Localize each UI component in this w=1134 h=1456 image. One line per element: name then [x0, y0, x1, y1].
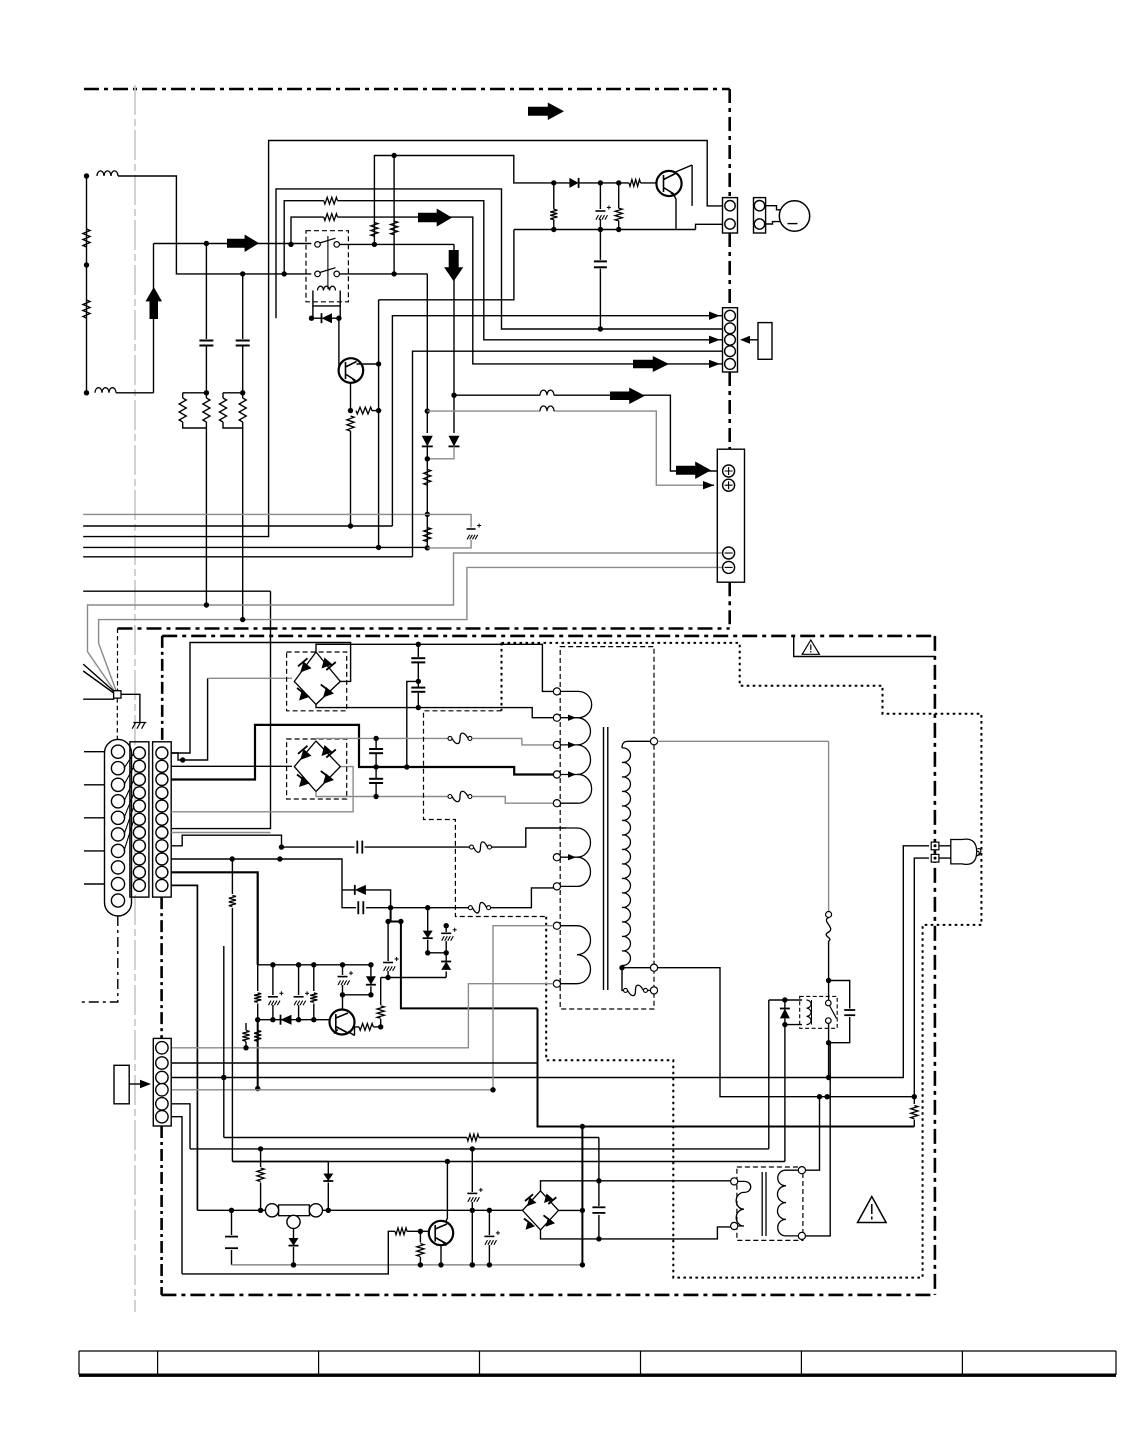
- capacitor C112: [231, 1210, 233, 1265]
- wire relay line to Q2 base: [339, 318, 343, 370]
- wire CN4 pin2: [172, 1062, 538, 1064]
- wire loop L2 to connector P2 pin3: [284, 201, 722, 340]
- wire CN4 pin6 down: [172, 1117, 182, 1274]
- thermal fuse F105: [826, 912, 832, 918]
- wire CN3 pin8 jog: [171, 835, 281, 847]
- capacitor C104: [375, 738, 377, 767]
- zener block: capacitor C109 (electrolytic): [342, 965, 344, 995]
- wire W1 riser (feeds line1): [374, 156, 553, 245]
- resistor R8: [239, 398, 246, 422]
- resistor R100: [911, 1106, 918, 1119]
- wire switch line 2 drop: [426, 274, 428, 433]
- flow arrow right into P2 pin5: [633, 356, 669, 372]
- T2 primary winding: [736, 1181, 751, 1226]
- bottom board border A (dash-dot): [118, 627, 730, 630]
- wire from L2 up to switch line 1: [116, 244, 311, 393]
- inductor L4: [540, 406, 554, 411]
- wire lamp stub 2: [765, 222, 781, 224]
- ground rail (gray): [232, 1264, 583, 1266]
- wire relay coil bottom: [785, 1025, 802, 1162]
- capacitor C115: [598, 1181, 600, 1239]
- wire relay coil top to rail: [769, 1000, 802, 1149]
- wire rail 1137 with resistor R107: [224, 946, 599, 1181]
- bottom board border B left segment 2 (dash-dot): [160, 897, 163, 1038]
- resistor R111: [419, 1231, 421, 1265]
- bottom board border B right (dash-dot): [934, 636, 937, 1295]
- connector P1 (2-pin): [723, 198, 738, 233]
- capacitor C101 (parallel pair lower): [342, 890, 391, 908]
- T1 secondary right tap mid: [650, 964, 657, 971]
- wire CN3 pin9 column through R108: [231, 859, 233, 1162]
- T1 secondary right tap bottom: [650, 987, 657, 994]
- transistor Q2: [339, 358, 364, 383]
- arrowhead into P2 pin5: [709, 360, 720, 368]
- wire CN3 pin1 to bridge D100 AC input: [171, 678, 207, 760]
- wire switch line 2 right run: [340, 273, 428, 275]
- T1 secondary top lead to tap: [622, 741, 651, 748]
- resistor R2: [83, 300, 90, 318]
- resistor network RN1 top bar: [183, 393, 207, 398]
- bridge rectifier D100 enclosure: [287, 652, 347, 711]
- wire zener block bottom link: [343, 994, 371, 996]
- AC plug body: [951, 839, 977, 864]
- wire T2 secondary top to plug rail: [806, 1097, 820, 1171]
- flow arrow right on switch line 1: [227, 235, 259, 253]
- wire C102/C103 midpoint branch: [407, 681, 419, 767]
- resistor R6: [203, 398, 210, 422]
- diode D104: [279, 1019, 282, 1021]
- resistor R110: [395, 1228, 407, 1235]
- component box left of CN4: [114, 1065, 129, 1104]
- wire mains line left to CN4 pin3: [172, 1077, 829, 1079]
- capacitor C106: [844, 1009, 855, 1011]
- resistor R109: [260, 1149, 262, 1210]
- wire plus line 2 with inductor L4 (gray): [427, 411, 703, 485]
- minus terminal 1: [723, 547, 735, 559]
- wire return line 1273.9: [182, 1231, 395, 1274]
- switch S1 dashed enclosure: [306, 231, 348, 302]
- wire feedback vertical lower: [378, 364, 380, 547]
- diode D109: [293, 1229, 295, 1265]
- wire loop L3 to connector P2 pin5: [291, 217, 722, 364]
- wire switch line 1 right run: [340, 243, 455, 245]
- wire Q2 emitter branch down to bus: [350, 431, 352, 526]
- connector CN3 (pin header): [153, 742, 172, 897]
- T1 secondary right tap top: [650, 738, 657, 745]
- wire CN4 pin5 down: [172, 1104, 190, 1149]
- wire rail 1210 (supply): [197, 1209, 522, 1211]
- wire Q101 emitter to ground rail: [440, 1245, 442, 1265]
- isolation barrier (heavy dotted): [502, 643, 982, 1278]
- transistor Q100: [330, 1010, 355, 1035]
- wire relay contact bottom to mains line: [828, 1023, 830, 1077]
- fuse F100: [470, 845, 474, 849]
- wire D100 plus output to tap1: [316, 644, 553, 691]
- wire CN3 pin3 heavy to tap4: [171, 725, 553, 780]
- AC plug terminal 2: [931, 854, 939, 862]
- diode D108: [323, 1174, 333, 1182]
- resistor R108: [229, 896, 236, 907]
- wire lamp stub 1: [765, 206, 781, 210]
- posistor PTC1: [265, 1204, 278, 1217]
- resistor R13 emitter to feedback vertical: [356, 407, 372, 414]
- bridge rectifier D101 diamond: [294, 741, 340, 792]
- T1 primary winding group3: [561, 926, 591, 984]
- bridge D100 diodes: [300, 662, 311, 673]
- flow arrow right (top): [528, 103, 564, 121]
- T2 secondary winding: [777, 1170, 798, 1236]
- resistor R7: [219, 398, 226, 422]
- wire Q1 emitter to rail: [674, 196, 676, 229]
- arrowhead into P2 pin3: [709, 336, 720, 344]
- wire Q2 emitter: [350, 383, 352, 411]
- fuse F102: [448, 736, 452, 740]
- footer revision table: [79, 1351, 1116, 1376]
- capacitor C105: [375, 767, 377, 797]
- bottom board border B left segment 3 (dash-dot): [160, 1126, 163, 1295]
- wire rail 1148.9: [190, 1148, 769, 1150]
- transistor Q101: [429, 1221, 453, 1245]
- wire Q100 collector top: [342, 995, 344, 1010]
- T1 internal fuse F104: [622, 968, 624, 991]
- AC plug prongs: [939, 846, 951, 858]
- capacitor C4: [599, 230, 601, 330]
- wire D101 output to fuse F102 and tap3 (gray): [316, 738, 448, 741]
- capacitor C108 (electrolytic): [298, 965, 300, 1020]
- wire rail 1161.5: [232, 1161, 785, 1163]
- wire plus line 1 with inductor L3: [454, 395, 717, 471]
- bridge D101 diodes: [300, 749, 311, 760]
- inductor L3: [540, 390, 554, 395]
- harness horizontal wire c: [83, 698, 114, 700]
- resistor R10 on W2: [391, 221, 398, 235]
- flow arrow right on plus line 1: [610, 388, 645, 405]
- relay RY1 coil: [807, 1000, 812, 1025]
- capacitor C103: [417, 681, 419, 707]
- switch S1-2 contacts: [315, 271, 321, 277]
- relay coil K1 (switch actuator): [318, 286, 336, 290]
- T1 core: [603, 727, 605, 990]
- transformer T1 dashed enclosure: [560, 647, 654, 1009]
- resistor R102: [313, 965, 315, 1020]
- fuse F103: [448, 795, 452, 799]
- wire from L1 to switch line 2: [118, 176, 311, 274]
- dash-dot exit from CN1 to page edge: [80, 916, 118, 1002]
- T2 primary taps: [731, 1178, 738, 1185]
- arrowhead into P2 pin1: [709, 312, 720, 320]
- wire T1 tap to thermal fuse (gray): [658, 741, 829, 911]
- arrowheads on group1 taps: [568, 715, 576, 721]
- dashed wire from node to connector CN1: [116, 698, 118, 739]
- wire Q1 collector to connector P1 pin1: [676, 165, 693, 206]
- resistor R101: [257, 965, 259, 1020]
- wire D106/C111 link: [428, 952, 447, 954]
- wire CN3 pin9 to snubber pair: [171, 859, 342, 890]
- wire feedback row 977: [381, 977, 447, 979]
- resistor R12 on loop L3: [324, 214, 338, 221]
- capacitor C5 (electrolytic): [467, 528, 476, 530]
- wire T2 secondary bottom riser: [806, 1043, 831, 1236]
- resistor network RN2 bottom bar: [223, 422, 243, 428]
- switch S1-1 contacts: [315, 242, 321, 248]
- wire CN4 pin1 to T1 group3 bottom tap (gray): [172, 984, 554, 1048]
- resistor R4: [424, 528, 431, 542]
- flow arrow right on loop L3: [418, 209, 452, 227]
- wire emitter rail: [514, 224, 723, 229]
- wire T1 tap mid to plug rail: [658, 968, 915, 1097]
- bridge rectifier D101 enclosure: [287, 739, 347, 799]
- node junction left chain: [84, 173, 89, 178]
- page fold divider (gray dash-dot vertical): [134, 85, 136, 1312]
- transformer T2 dashed enclosure: [737, 1167, 803, 1240]
- wire RN2 down to minus bus 2: [242, 428, 244, 620]
- wire to bridge D100 left (gray): [208, 677, 292, 679]
- chassis ground: [132, 723, 146, 729]
- capacitor C113 (electrolytic): [471, 1149, 473, 1265]
- wire W2 riser (feeds line2): [393, 156, 395, 274]
- resistor R9 on W1: [371, 223, 378, 237]
- wire thermal fuse to relay contact: [828, 941, 830, 1000]
- wire heater line with C and fuse: [282, 828, 567, 847]
- resistor R16: [550, 209, 557, 219]
- wire CN3 pin7 sense (gray): [171, 832, 270, 834]
- wire bus 526 to connector P2 pin1: [83, 316, 722, 526]
- T2 core: [761, 1172, 763, 1236]
- connector CN2 (pin header): [130, 742, 149, 897]
- wire CN3 pin11 down to low-voltage rail: [171, 885, 197, 1210]
- diode D3: [422, 436, 433, 447]
- flow arrow up: [146, 287, 163, 319]
- wire CN3 pin10 heavy to regulator rail: [171, 872, 258, 965]
- minus bus 2 (gray): [99, 567, 723, 690]
- connector P4 (lamp socket): [754, 198, 766, 233]
- capacitor C102: [417, 644, 419, 681]
- warning triangle 1: [802, 640, 819, 654]
- wire node to chassis ground: [121, 694, 140, 722]
- wire RN1 down to minus bus: [205, 428, 207, 605]
- T1 primary winding group2: [561, 828, 591, 886]
- wire Q101 collector up to line 1161.5: [446, 1162, 448, 1223]
- arrow from box into P2 pin3: [744, 339, 758, 341]
- AC plug cord stub: [977, 849, 981, 856]
- regulator rail bottom: [258, 1019, 330, 1021]
- bridge rectifier D110 diamond: [523, 1191, 559, 1230]
- wire D2 cathode jog: [427, 446, 454, 458]
- component box right of P2: [758, 323, 772, 360]
- wire left antenna chain vertical: [86, 176, 88, 393]
- bridge D110 diodes: [527, 1197, 537, 1206]
- wire cap column 1 from switch line 1: [205, 244, 207, 340]
- top section border (dash-dot horizontal): [84, 88, 730, 91]
- harness diagonal wire b: [83, 671, 114, 694]
- wire pair to fuse F101 and tap group2: [391, 888, 557, 908]
- wire coil to diode rail: [313, 306, 340, 318]
- plus terminal 2: [723, 479, 735, 491]
- T1 primary taps group1: [553, 688, 560, 695]
- switch S1 mechanical link: [327, 236, 329, 289]
- wire row 921 heavy feed: [388, 908, 914, 1127]
- wire D100 minus output to tap2: [316, 704, 553, 717]
- resistor R5: [179, 398, 186, 422]
- harness diagonal wire a: [83, 664, 114, 692]
- inductor L1: [97, 171, 118, 176]
- wire D110 top to T2 primary tap: [541, 1181, 731, 1191]
- fuse block dashed enclosure: [424, 711, 547, 917]
- capacitor C111 (electrolytic): [445, 926, 447, 953]
- wire mains line right to plug prong 1: [829, 846, 929, 1078]
- T1 group3 taps: [553, 922, 560, 929]
- wire loop L1 to connector P2 pin2: [276, 189, 723, 329]
- bottom board border B top (dash-dot): [162, 635, 935, 638]
- wire C2 to damper network: [242, 346, 244, 393]
- wire bus 557 to connector P2 pin4: [83, 351, 722, 557]
- wire cap column 2 from switch line 2: [242, 274, 244, 339]
- resistor R107: [467, 1134, 479, 1141]
- wire D110 right vertex to heavy drop: [559, 1209, 583, 1211]
- resistor R14 below Q2 emitter: [347, 416, 354, 431]
- diode D102 (parallel pair upper): [342, 890, 391, 908]
- diode D1 across relay coil: [312, 317, 322, 319]
- wire D3 cathode to divider: [426, 446, 428, 548]
- connector CN1 (wire-harness receptacle, stadium): [105, 739, 132, 916]
- capacitor C110 (electrolytic): [387, 922, 389, 978]
- wire stubs into CN1 from page edge: [84, 752, 105, 884]
- bottom board border B bottom (dash-dot): [161, 1294, 935, 1297]
- dashed drop from border A to CN1: [117, 629, 119, 691]
- transistor Q1: [656, 171, 681, 196]
- plus terminal 1: [723, 465, 735, 477]
- capacitor C107 (electrolytic): [272, 965, 274, 1020]
- zener diode D107: [445, 953, 447, 978]
- lamp LP1: [779, 201, 809, 231]
- T1 secondary bottom lead: [622, 965, 651, 967]
- resistor R15: [629, 180, 641, 187]
- wire heavy drop x582: [581, 1127, 583, 1265]
- wire D110 bottom to T2 primary tap: [541, 1227, 731, 1239]
- T1 secondary winding: [622, 748, 630, 966]
- relay RY1 snubber branch: [829, 981, 850, 1043]
- diode D4: [569, 178, 578, 188]
- wire bridge D100 right vertex return: [171, 643, 350, 754]
- minus bus 1 (gray): [88, 553, 723, 693]
- wire Q2 collector to feedback vertical: [357, 300, 379, 364]
- connector CN4 (6-pin): [153, 1038, 171, 1126]
- capacitor C114 (electrolytic): [488, 1210, 490, 1265]
- wire branch to diode D108: [232, 1162, 328, 1211]
- relay RY1 dashed enclosure: [800, 996, 838, 1028]
- resistor R17: [615, 208, 622, 221]
- capacitor C2: [236, 340, 250, 342]
- snubber loop with C5: [427, 514, 471, 548]
- relay RY1 contacts: [826, 1000, 832, 1006]
- resistor R106: [254, 1031, 261, 1042]
- resistor R105: [245, 1023, 247, 1048]
- wire plug prong 2 down through resistor R100: [914, 858, 929, 1126]
- wire D101 output to fuse F103 and tap5 (gray): [316, 792, 448, 797]
- resistor R11 on loop L2: [324, 197, 338, 204]
- wire bus 591 to lower board: [83, 591, 270, 828]
- bottom board border B left segment 1 (dash-dot): [161, 636, 164, 742]
- capacitor C1: [199, 340, 213, 342]
- wire heavy down from rail: [257, 1020, 259, 1089]
- regulator rail top: [258, 964, 371, 966]
- wire CN3 pin2 to bridge D101 AC input: [171, 765, 292, 767]
- warning triangle 2: [858, 1197, 887, 1223]
- wire C1 to damper network: [205, 346, 207, 393]
- capacitor C100: [356, 841, 358, 854]
- diode D106: [427, 908, 429, 953]
- T2 secondary taps: [798, 1167, 805, 1174]
- zener diode D105: [370, 965, 372, 995]
- flow arrow down: [444, 250, 463, 281]
- T1 primary winding group1: [561, 691, 592, 803]
- wire Q100 emitter to resistor R103: [348, 1027, 359, 1036]
- wire gray sense bus: [83, 513, 427, 515]
- connector P2 (5-pin): [723, 308, 738, 372]
- resistor network RN2 top bar: [223, 393, 243, 398]
- resistor R103: [359, 1024, 373, 1031]
- wire rectifier line y183: [554, 182, 657, 184]
- connector P3 (speaker terminal block): [717, 449, 744, 582]
- crossover wires between CN1 and CN2: [124, 753, 134, 851]
- wire bus 547 to divider bottom: [83, 546, 427, 548]
- resistor network RN1 bottom bar: [183, 422, 207, 428]
- T1 group2 taps: [553, 854, 560, 861]
- resistor R3: [424, 469, 431, 485]
- diode D103 across relay coil: [784, 1000, 786, 1025]
- resistor R1: [83, 229, 90, 247]
- inductor L2: [95, 388, 116, 393]
- wire outer loop to connector P1 pin1: [83, 141, 722, 537]
- wire switch line 1 drop to rectifier diodes: [453, 244, 455, 433]
- wire bridge D101 right vertex to CN3 pin5 (gray): [171, 767, 353, 812]
- AC plug terminal 1: [931, 842, 939, 850]
- diode D2: [449, 436, 460, 447]
- resistor R104: [380, 978, 382, 1027]
- wire rail return loop: [379, 230, 514, 300]
- arrowhead into plus terminal 2: [703, 481, 714, 489]
- minus terminal 2: [723, 561, 735, 573]
- isolation barrier stub: [501, 643, 503, 711]
- top section border right (dash-dot vertical x=729.7): [728, 89, 731, 629]
- warning callout box: [794, 636, 935, 657]
- capacitor C3 (electrolytic): [599, 183, 601, 230]
- wire CN4 pin4 to T1 group3 top tap (gray): [172, 926, 554, 1090]
- fuse F101: [468, 906, 472, 910]
- bridge rectifier D100 diamond: [294, 652, 340, 704]
- flow arrow right into plus terminal: [676, 462, 711, 480]
- harness merge node (square): [114, 691, 121, 698]
- arrow from box into CN4: [129, 1083, 141, 1085]
